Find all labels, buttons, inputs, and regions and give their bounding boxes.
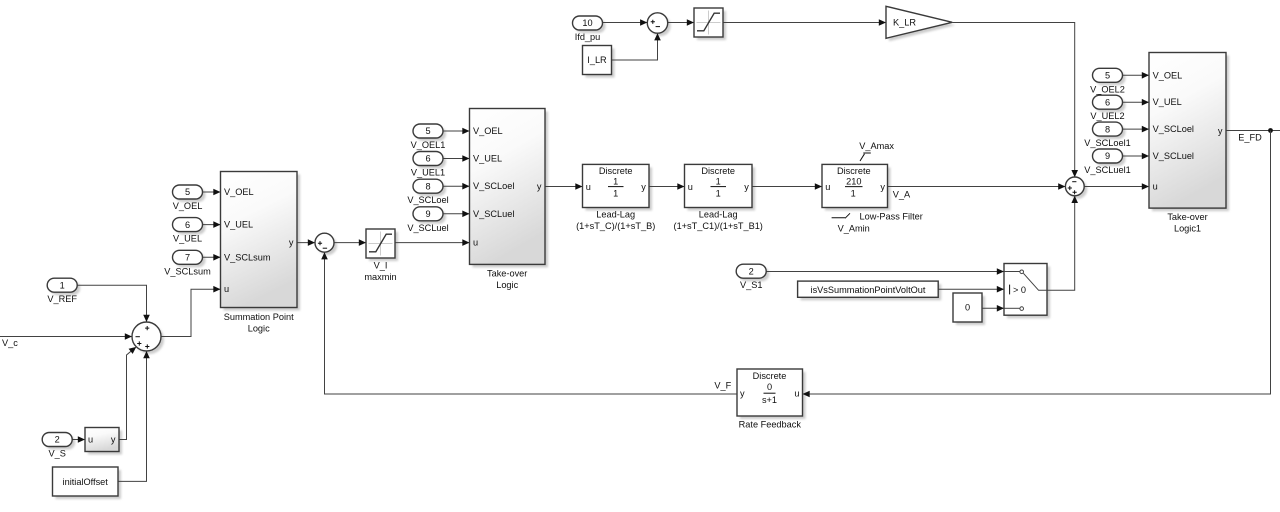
node V_c	[2, 338, 18, 348]
svg-text:Discrete: Discrete	[837, 166, 871, 176]
wire port 5 to V_OEL of Take-over Logic	[443, 128, 470, 135]
gain K_LR	[886, 6, 952, 38]
wire E_FD feedback to Rate Feedback u	[803, 131, 1271, 398]
constant isVsSummationPointVoltOut	[798, 281, 939, 297]
saturation block	[694, 8, 723, 37]
svg-text:y: y	[1218, 126, 1223, 136]
svg-text:6: 6	[425, 154, 430, 164]
svg-text:(1+sT_C1)/(1+sT_B1): (1+sT_C1)/(1+sT_B1)	[674, 221, 763, 231]
svg-text:V_SCLuel: V_SCLuel	[473, 209, 514, 219]
annotation V_Amin lower limit	[832, 213, 870, 233]
svg-text:V_SCLoel1: V_SCLoel1	[1084, 138, 1130, 148]
svg-text:V_REF: V_REF	[47, 294, 77, 304]
svg-text:8: 8	[425, 181, 430, 191]
wire Sum2 to V_I maxmin	[334, 239, 366, 246]
inport 8 V_SCLoel	[407, 179, 448, 205]
svg-text:10: 10	[582, 18, 592, 28]
wire node V_F Rate Feedback y to Sum2	[321, 252, 737, 394]
inport 5 V_OEL1	[411, 124, 446, 150]
sum junction Sum3	[1065, 177, 1084, 196]
svg-text:V_OEL: V_OEL	[473, 126, 503, 136]
svg-text:V_UEL: V_UEL	[1153, 97, 1182, 107]
svg-text:Low-Pass Filter: Low-Pass Filter	[860, 211, 923, 221]
node V_A	[893, 189, 911, 199]
inport 2 V_S	[42, 433, 72, 459]
wire Lead-Lag1 to Low-Pass Filter	[752, 183, 822, 190]
svg-text:1: 1	[851, 188, 856, 198]
svg-text:0: 0	[965, 303, 970, 313]
svg-text:Logic: Logic	[496, 280, 518, 290]
svg-text:Summation Point: Summation Point	[224, 312, 294, 322]
wire port 9 to V_SCLuel of Take-over Logic1	[1123, 153, 1150, 160]
svg-text:V_UEL1: V_UEL1	[411, 168, 445, 178]
svg-text:y: y	[289, 238, 294, 248]
svg-text:u: u	[88, 435, 93, 445]
inport 2 V_S1	[736, 264, 766, 290]
svg-text:Lead-Lag: Lead-Lag	[596, 210, 635, 220]
wire V_S to subsystem u	[72, 436, 85, 443]
svg-text:1: 1	[613, 188, 618, 198]
svg-text:9: 9	[1105, 151, 1110, 161]
inport 1 V_REF	[47, 278, 77, 304]
wire constant 0 to Switch input 3	[982, 305, 1004, 312]
svg-text:V_SCLuel: V_SCLuel	[1153, 151, 1194, 161]
subsystem Take-over Logic	[470, 109, 546, 290]
wire port 6 to V_UEL of Take-over Logic1	[1123, 99, 1150, 106]
node E_FD	[1238, 133, 1262, 143]
svg-text:u: u	[586, 182, 591, 192]
svg-text:u: u	[825, 182, 830, 192]
svg-text:8: 8	[1105, 124, 1110, 134]
annotation V_Amax upper limit	[859, 141, 894, 161]
svg-text:maxmin: maxmin	[364, 272, 396, 282]
svg-text:6: 6	[185, 220, 190, 230]
svg-text:V_S: V_S	[49, 449, 66, 459]
transfer block Rate Feedback (flipped)	[737, 369, 803, 430]
svg-text:Logic1: Logic1	[1174, 224, 1201, 234]
subsystem Take-over Logic1	[1149, 53, 1226, 234]
svg-text:y: y	[880, 182, 885, 192]
svg-text:5: 5	[425, 126, 430, 136]
svg-text:V_I: V_I	[374, 261, 388, 271]
svg-text:V_SCLoel: V_SCLoel	[407, 195, 448, 205]
wire port 6 to V_UEL	[203, 221, 221, 228]
svg-text:y: y	[740, 389, 745, 399]
svg-text:V_UEL: V_UEL	[224, 220, 253, 230]
svg-text:2: 2	[55, 435, 60, 445]
svg-text:V_Amin: V_Amin	[838, 224, 870, 234]
wire Sum0 to Summation Point Logic u	[161, 286, 221, 337]
svg-text:Discrete: Discrete	[701, 166, 735, 176]
wire initialOffset to sum junction Sum0	[118, 351, 150, 481]
svg-text:V_Amax: V_Amax	[859, 141, 894, 151]
svg-text:V_UEL: V_UEL	[473, 154, 502, 164]
svg-text:I_LR: I_LR	[587, 55, 607, 65]
svg-text:y: y	[537, 182, 542, 192]
wire Lead-Lag to Lead-Lag1	[649, 183, 685, 190]
wire port 5 to V_OEL	[203, 189, 221, 196]
inport 9 V_SCLuel	[407, 207, 448, 233]
svg-text:0: 0	[767, 382, 772, 392]
svg-text:210: 210	[846, 176, 861, 186]
svg-text:y: y	[744, 182, 749, 192]
svg-text:Lead-Lag: Lead-Lag	[699, 210, 738, 220]
wire Ifd_pu to sum junction	[603, 19, 648, 26]
wire node V_A Low-Pass Filter to Sum3	[888, 183, 1066, 190]
inport 7 V_SCLsum	[164, 250, 211, 276]
svg-text:V_SCLsum: V_SCLsum	[224, 252, 271, 262]
svg-text:V_SCLuel1: V_SCLuel1	[1084, 165, 1130, 175]
svg-text:V_SCLsum: V_SCLsum	[164, 266, 211, 276]
node V_F	[714, 381, 731, 391]
inport 10 Ifd_pu	[573, 16, 603, 42]
svg-text:V_OEL2: V_OEL2	[1090, 84, 1125, 94]
svg-text:V_OEL: V_OEL	[173, 201, 203, 211]
inport 6 V_UEL1	[411, 152, 445, 178]
svg-text:1: 1	[716, 188, 721, 198]
inport 6 V_UEL2	[1090, 95, 1124, 121]
svg-text:Ifd_pu: Ifd_pu	[575, 32, 601, 42]
svg-text:9: 9	[425, 209, 430, 219]
wire V_S1 to Switch input 1	[766, 268, 1004, 275]
subsystem u/y (V_S conditioning)	[85, 428, 119, 452]
svg-text:1: 1	[716, 176, 721, 186]
svg-text:Take-over: Take-over	[487, 268, 527, 278]
wire port 6 to V_UEL of Take-over Logic	[443, 155, 470, 162]
wire K_LR to sum junction Sum3	[952, 23, 1078, 178]
wire Sum3 to Take-over Logic1 u	[1084, 183, 1149, 190]
junction E_FD	[1268, 128, 1273, 133]
svg-text:V_UEL2: V_UEL2	[1090, 111, 1124, 121]
wire node E_FD output	[1226, 130, 1280, 132]
svg-text:Discrete: Discrete	[753, 371, 787, 381]
svg-text:u: u	[473, 238, 478, 248]
transfer block Low-Pass Filter	[822, 164, 888, 207]
svg-text:7: 7	[185, 253, 190, 263]
svg-text:u: u	[794, 389, 799, 399]
svg-text:V_A: V_A	[893, 189, 911, 199]
svg-text:5: 5	[185, 187, 190, 197]
svg-text:> 0: > 0	[1013, 285, 1026, 295]
svg-text:E_FD: E_FD	[1238, 133, 1262, 143]
transfer block Lead-Lag1	[674, 164, 763, 230]
svg-text:y: y	[111, 435, 116, 445]
svg-text:(1+sT_C)/(1+sT_B): (1+sT_C)/(1+sT_B)	[576, 221, 655, 231]
wire Summation Point Logic y to Sum2	[297, 239, 315, 246]
svg-text:V_SCLuel: V_SCLuel	[407, 223, 448, 233]
inport 6 V_UEL	[173, 218, 203, 244]
wire Switch to Sum3	[1047, 196, 1078, 290]
wire I_LR to sum junction	[612, 33, 661, 60]
sum junction Sum2	[315, 233, 334, 252]
svg-text:u: u	[1153, 182, 1158, 192]
svg-text:1: 1	[613, 176, 618, 186]
constant I_LR	[583, 46, 612, 75]
svg-text:1: 1	[60, 280, 65, 290]
label Low-Pass Filter	[860, 211, 923, 221]
saturation V_I maxmin	[364, 229, 396, 282]
svg-text:u: u	[224, 284, 229, 294]
sum junction Sum1	[647, 13, 667, 33]
svg-text:Logic: Logic	[248, 324, 270, 334]
svg-text:V_UEL: V_UEL	[173, 234, 202, 244]
inport 9 V_SCLuel1	[1084, 149, 1130, 175]
svg-text:5: 5	[1105, 71, 1110, 81]
svg-text:V_OEL: V_OEL	[1153, 70, 1183, 80]
subsystem Summation Point Logic	[221, 172, 298, 334]
wire Take-over Logic y to Lead-Lag	[545, 183, 583, 190]
constant 0	[953, 293, 982, 322]
constant initialOffset	[53, 467, 119, 496]
wire port 8 to V_SCLoel of Take-over Logic1	[1123, 126, 1150, 133]
svg-text:V_SCLoel: V_SCLoel	[1153, 124, 1194, 134]
wire V_REF to sum junction Sum0	[77, 285, 150, 322]
svg-text:Take-over: Take-over	[1167, 212, 1207, 222]
svg-text:s+1: s+1	[762, 395, 777, 405]
wire sum junction to saturation	[668, 19, 694, 26]
svg-text:2: 2	[749, 266, 754, 276]
svg-text:V_S1: V_S1	[740, 280, 762, 290]
svg-text:y: y	[641, 182, 646, 192]
svg-text:isVsSummationPointVoltOut: isVsSummationPointVoltOut	[811, 285, 926, 295]
inport 5 V_OEL	[173, 185, 203, 211]
svg-text:Discrete: Discrete	[599, 166, 633, 176]
svg-text:K_LR: K_LR	[893, 18, 916, 28]
wire saturation to gain K_LR	[723, 19, 886, 26]
wire node V_c to sum junction Sum0	[0, 333, 132, 340]
wire port 9 to V_SCLuel of Take-over Logic	[443, 211, 470, 218]
svg-text:V_OEL1: V_OEL1	[411, 140, 446, 150]
svg-text:V_OEL: V_OEL	[224, 187, 254, 197]
wire port 7 to V_SCLsum	[203, 254, 221, 261]
wire port 8 to V_SCLoel of Take-over Logic	[443, 183, 470, 190]
svg-text:initialOffset: initialOffset	[63, 477, 109, 487]
wire V_S subsystem y to sum junction Sum0	[119, 347, 136, 440]
transfer block Lead-Lag	[576, 164, 655, 230]
svg-text:6: 6	[1105, 97, 1110, 107]
inport 5 V_OEL2	[1090, 68, 1125, 94]
svg-text:V_c: V_c	[2, 338, 18, 348]
svg-text:Rate Feedback: Rate Feedback	[739, 420, 802, 430]
switch block	[1004, 264, 1047, 316]
svg-text:V_F: V_F	[714, 381, 731, 391]
inport 8 V_SCLoel1	[1084, 122, 1130, 148]
wire isVsSummationPointVoltOut to Switch control	[938, 286, 1004, 293]
wire port 5 to V_OEL of Take-over Logic1	[1123, 72, 1150, 79]
wire V_I maxmin to Take-over Logic u	[395, 239, 470, 246]
svg-text:V_SCLoel: V_SCLoel	[473, 181, 514, 191]
svg-text:u: u	[688, 182, 693, 192]
sum junction Sum0	[132, 322, 161, 351]
